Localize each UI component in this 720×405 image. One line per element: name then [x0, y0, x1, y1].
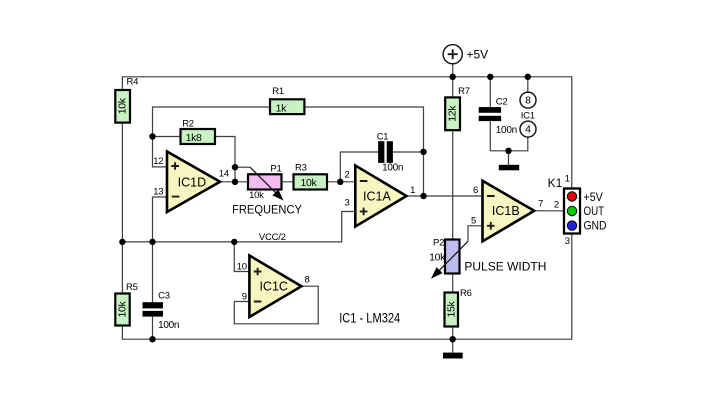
- svg-text:IC1 - LM324: IC1 - LM324: [339, 310, 400, 325]
- svg-text:R4: R4: [127, 76, 139, 87]
- wire top bus: [122, 77, 571, 189]
- svg-text:13: 13: [153, 186, 163, 197]
- ground mid (C2): [508, 151, 510, 165]
- svg-text:1: 1: [565, 174, 570, 185]
- svg-text:9: 9: [242, 291, 247, 302]
- P1 wiper arrowhead: [272, 189, 283, 200]
- op-amp IC1D: [167, 152, 220, 213]
- svg-text:10: 10: [237, 261, 247, 272]
- wire left border lower: [121, 123, 123, 294]
- svg-text:10k: 10k: [249, 190, 264, 201]
- svg-text:12k: 12k: [447, 105, 459, 122]
- svg-text:K1: K1: [548, 176, 563, 190]
- svg-text:IC1A: IC1A: [363, 189, 391, 203]
- ground bottom: [452, 339, 454, 352]
- svg-text:8: 8: [305, 274, 310, 285]
- svg-text:R1: R1: [272, 86, 284, 97]
- potentiometer P2: [445, 240, 460, 274]
- wire R2 right to IC1D output: [215, 137, 235, 182]
- svg-text:8: 8: [525, 94, 531, 106]
- op-amp IC1A: [355, 166, 406, 227]
- op-amp IC1C: [249, 256, 301, 318]
- K1 pin1 red: [567, 192, 576, 201]
- svg-text:100n: 100n: [158, 320, 179, 331]
- P2 wiper diagonal: [440, 241, 468, 270]
- wire C3 branch: [152, 242, 154, 339]
- svg-text:14: 14: [219, 169, 229, 180]
- svg-text:R7: R7: [458, 86, 470, 97]
- svg-text:R5: R5: [126, 282, 138, 293]
- svg-text:10k: 10k: [117, 97, 129, 114]
- wire P2 pin5 link: [468, 226, 483, 242]
- wire IC1B out to K1: [534, 210, 564, 212]
- svg-text:IC1B: IC1B: [492, 204, 520, 218]
- svg-text:5: 5: [471, 215, 476, 226]
- wire IC1C feedback loop: [234, 286, 318, 324]
- P2 wiper arrowhead: [431, 267, 443, 279]
- svg-text:GND: GND: [584, 218, 607, 232]
- IC1 power pin 8 circle: [520, 92, 536, 108]
- wire R1 left / pin12 branch: [153, 107, 271, 167]
- junction dots: [149, 133, 155, 139]
- svg-text:IC1D: IC1D: [178, 176, 206, 190]
- svg-text:R3: R3: [295, 163, 307, 174]
- +5V supply symbol: [443, 45, 462, 64]
- wire C2 branch: [490, 77, 528, 151]
- IC1 power pin 4 circle: [520, 121, 536, 137]
- svg-text:1k: 1k: [276, 103, 287, 115]
- resistor R5: [115, 294, 129, 326]
- wire +5V rail through R7 P2 R6: [452, 64, 454, 339]
- wire IC1D output to IC1A pin2: [220, 181, 356, 183]
- op-amp IC1B: [483, 181, 535, 242]
- svg-text:12: 12: [153, 156, 163, 167]
- svg-text:1: 1: [410, 185, 415, 196]
- svg-text:C1: C1: [377, 131, 389, 142]
- wire R1 right to IC1A output column: [304, 107, 423, 196]
- resistor R7: [445, 97, 460, 130]
- wire R2 left: [153, 136, 181, 138]
- svg-text:+5V: +5V: [584, 190, 603, 204]
- svg-text:4: 4: [525, 123, 531, 135]
- wire IC1C pin10 branch: [234, 242, 249, 272]
- resistor R1: [270, 99, 304, 114]
- svg-text:IC1C: IC1C: [259, 280, 287, 294]
- svg-text:+5V: +5V: [467, 48, 489, 62]
- resistor R6: [445, 293, 459, 327]
- svg-text:7: 7: [538, 199, 543, 210]
- wire P1 wiper link horizontal: [235, 166, 250, 168]
- svg-text:6: 6: [473, 185, 478, 196]
- svg-text:10k: 10k: [301, 177, 318, 189]
- capacitor C3: [143, 302, 164, 308]
- svg-text:15k: 15k: [445, 300, 457, 317]
- connector K1: [564, 189, 580, 234]
- svg-text:VCC/2: VCC/2: [259, 232, 286, 243]
- svg-text:FREQUENCY: FREQUENCY: [232, 202, 302, 216]
- svg-text:3: 3: [344, 197, 349, 208]
- svg-text:100n: 100n: [382, 163, 403, 174]
- svg-text:100n: 100n: [496, 125, 517, 136]
- wire IC1A out to IC1B pin6: [407, 195, 483, 197]
- wire pin8 circle stub: [527, 77, 529, 92]
- K1 pin3 blue: [567, 221, 576, 230]
- svg-text:PULSE WIDTH: PULSE WIDTH: [464, 259, 546, 273]
- resistor R4: [115, 90, 130, 123]
- svg-text:10k: 10k: [117, 300, 129, 317]
- wire pin13 branch: [153, 197, 168, 242]
- wire VCC/2 line: [122, 212, 355, 242]
- wire C1 loop: [340, 152, 423, 182]
- svg-text:P2: P2: [433, 237, 444, 248]
- potentiometer P1: [248, 174, 282, 189]
- svg-text:OUT: OUT: [584, 204, 605, 218]
- K1 pin2 green: [567, 206, 576, 215]
- capacitor C1: [378, 141, 384, 163]
- svg-text:R2: R2: [182, 119, 194, 130]
- wire bottom bus: [122, 234, 571, 340]
- capacitor C2: [479, 107, 501, 113]
- svg-text:R6: R6: [460, 288, 472, 299]
- svg-text:C3: C3: [158, 290, 170, 301]
- svg-text:1k8: 1k8: [186, 132, 202, 144]
- svg-text:3: 3: [565, 236, 570, 247]
- svg-text:P1: P1: [270, 163, 281, 174]
- svg-text:10k: 10k: [429, 251, 446, 263]
- svg-text:2: 2: [554, 200, 559, 211]
- resistor R2: [181, 129, 216, 144]
- svg-text:IC1: IC1: [521, 111, 535, 122]
- svg-text:2: 2: [344, 170, 349, 181]
- svg-text:C2: C2: [496, 97, 508, 108]
- resistor R3: [294, 174, 328, 189]
- P1 wiper diagonal: [250, 167, 276, 193]
